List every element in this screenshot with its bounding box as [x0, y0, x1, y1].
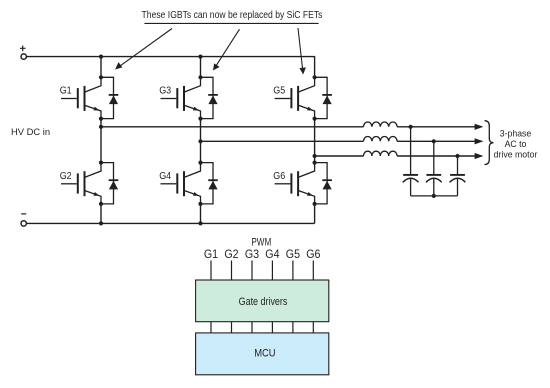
wire: leg2 midpoint — [200, 119, 202, 163]
svg-text:G4: G4 — [159, 170, 172, 182]
IGBT G1 — [61, 77, 101, 118]
svg-text:G2: G2 — [60, 170, 72, 182]
node: G4 collector — [198, 161, 202, 165]
arrow phase C — [475, 153, 484, 159]
annotation underline — [144, 22, 318, 24]
svg-text:G3: G3 — [245, 248, 259, 260]
wire: C1 drop — [410, 127, 412, 174]
svg-text:G1: G1 — [204, 248, 218, 260]
wire: bottom DC rail — [27, 222, 315, 224]
node: G6 collector — [313, 161, 317, 165]
node: phase B / C2 — [432, 139, 436, 143]
node: phase A / C1 — [409, 125, 413, 129]
svg-text:3-phase: 3-phase — [500, 128, 532, 138]
node: G3 collector — [198, 75, 202, 79]
node: bottom rail / leg2 — [198, 221, 202, 225]
wire: top DC rail — [27, 57, 315, 78]
wire: leg1 lower — [100, 204, 102, 224]
diode across G4 — [201, 163, 218, 204]
wire: gate line G1 — [210, 261, 212, 281]
node: phase C / C3 — [455, 154, 459, 158]
svg-text:Gate drivers: Gate drivers — [239, 296, 288, 308]
wire: leg2 upper — [200, 57, 202, 78]
wire: phase A line — [101, 126, 476, 128]
wire: driver-mcu link 2 — [231, 322, 233, 333]
svg-text:HV DC in: HV DC in — [11, 126, 50, 137]
capacitor C1 — [403, 175, 419, 196]
wire: gate line G4 — [271, 261, 273, 281]
svg-text:G4: G4 — [265, 248, 279, 260]
node: G4 emitter — [198, 202, 202, 206]
node: G2 collector — [99, 161, 103, 165]
capacitor C2 — [426, 175, 442, 196]
node: phase B tap — [198, 139, 202, 143]
node: capacitor common — [432, 194, 436, 198]
wire: gate line G2 — [231, 261, 233, 281]
wire: driver-mcu link 3 — [251, 322, 253, 333]
wire: leg3 midpoint — [314, 119, 316, 163]
wire: driver-mcu link 5 — [292, 322, 294, 333]
IGBT G3 — [161, 77, 201, 118]
svg-text:AC to: AC to — [505, 139, 527, 149]
wire: capacitor common — [411, 195, 458, 197]
wire: leg3 lower — [314, 204, 316, 224]
wire: gate line G6 — [312, 261, 314, 281]
label 3-phase AC to drive motor — [494, 128, 538, 159]
gate drivers box — [196, 280, 329, 322]
svg-text:G6: G6 — [306, 248, 320, 260]
svg-text:MCU: MCU — [254, 348, 275, 360]
annotation arrow to IGBT G3 — [213, 29, 240, 70]
node: phase A tap — [99, 125, 103, 129]
diode across G5 — [315, 77, 332, 118]
annotation arrow to IGBT G1 — [115, 29, 172, 70]
node: G1 collector — [99, 75, 103, 79]
arrow phase A — [475, 124, 484, 130]
svg-text:G6: G6 — [273, 170, 285, 182]
brace — [485, 121, 494, 165]
svg-text:G3: G3 — [159, 85, 171, 97]
IGBT G4 — [161, 163, 201, 204]
+ terminal — [20, 46, 27, 60]
- terminal — [21, 214, 26, 226]
svg-text:G1: G1 — [60, 85, 72, 97]
annotation arrow to IGBT G5 — [298, 28, 306, 75]
wire: gate line G5 — [292, 261, 294, 281]
wire: C2 drop — [433, 141, 435, 174]
diode across G1 — [101, 77, 118, 118]
node: G2 emitter — [99, 202, 103, 206]
svg-text:drive motor: drive motor — [494, 149, 538, 159]
arrow phase B — [475, 138, 484, 144]
diode across G3 — [201, 77, 218, 118]
node: G5 emitter — [313, 117, 317, 121]
wire: driver-mcu link 1 — [210, 322, 212, 333]
inductor phase A — [364, 122, 398, 127]
wire: driver-mcu link 6 — [312, 322, 314, 333]
svg-text:These IGBTs can now be replace: These IGBTs can now be replaced by SiC F… — [142, 10, 323, 21]
IGBT G2 — [61, 163, 101, 204]
svg-text:G2: G2 — [224, 248, 238, 260]
svg-text:G5: G5 — [273, 85, 285, 97]
wire: C3 drop — [457, 156, 459, 174]
svg-text:PWM: PWM — [251, 237, 271, 250]
wire: leg1 upper — [100, 57, 102, 78]
wire: gate line G3 — [251, 261, 253, 281]
node: G3 emitter — [198, 117, 202, 121]
wire: leg2 lower — [200, 204, 202, 224]
inductor phase C — [364, 151, 398, 156]
svg-text:G5: G5 — [286, 248, 300, 260]
node: rail / leg2 — [198, 55, 202, 59]
diode across G2 — [101, 163, 118, 204]
MCU box — [196, 333, 329, 375]
node: bottom rail / leg1 — [99, 221, 103, 225]
wire: driver-mcu link 4 — [271, 322, 273, 333]
node: G1 emitter — [99, 117, 103, 121]
wire: phase C line — [315, 155, 476, 157]
node: G6 emitter — [313, 202, 317, 206]
node: G5 collector — [313, 75, 317, 79]
node: phase C tap — [313, 154, 317, 158]
inductor phase B — [364, 137, 398, 142]
node: rail / leg1 — [99, 55, 103, 59]
wire: phase B line — [201, 140, 477, 142]
IGBT G5 — [275, 77, 315, 118]
diode across G6 — [315, 163, 332, 204]
capacitor C3 — [450, 175, 466, 196]
IGBT G6 — [275, 163, 315, 204]
wire: leg1 midpoint — [100, 119, 102, 163]
